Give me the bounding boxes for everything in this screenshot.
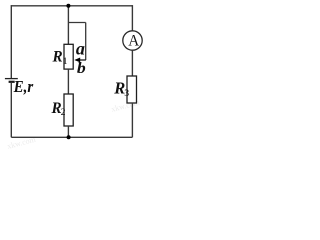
battery E,r long plate	[5, 78, 18, 80]
label R2	[51, 100, 66, 119]
resistor R3	[127, 76, 137, 103]
wire rheostat tap horizontal	[68, 22, 85, 24]
battery E,r short plate	[9, 81, 15, 83]
wire right lower	[131, 103, 133, 137]
svg-text:3: 3	[124, 88, 129, 99]
label R3	[113, 79, 129, 99]
rheostat wiper arrow	[74, 58, 86, 63]
label b	[77, 59, 86, 77]
wire left lower	[10, 83, 12, 138]
svg-text:A: A	[128, 32, 140, 49]
svg-text:a: a	[76, 39, 85, 59]
svg-text:1: 1	[63, 56, 68, 67]
wire middle branch lower	[67, 126, 69, 137]
svg-text:R: R	[52, 48, 63, 65]
label R1	[52, 48, 68, 67]
wire left upper (to battery)	[10, 5, 12, 78]
wire top	[11, 5, 132, 7]
svg-text:E,r: E,r	[13, 79, 34, 97]
wire right mid (ammeter to R3)	[131, 50, 133, 76]
wire bottom	[11, 136, 132, 138]
resistor R2	[64, 94, 73, 126]
wire middle branch mid (R1 to R2)	[67, 69, 69, 94]
ammeter A	[123, 31, 142, 50]
label E,r	[13, 79, 34, 97]
node junction bottom	[67, 135, 71, 139]
svg-text:b: b	[77, 59, 86, 77]
resistor R1	[64, 44, 73, 69]
wire rheostat tap vertical	[85, 23, 87, 61]
svg-text:2: 2	[61, 107, 66, 118]
wire right upper (to ammeter)	[131, 5, 133, 30]
wire middle branch upper	[67, 6, 69, 45]
node junction top	[66, 4, 70, 8]
